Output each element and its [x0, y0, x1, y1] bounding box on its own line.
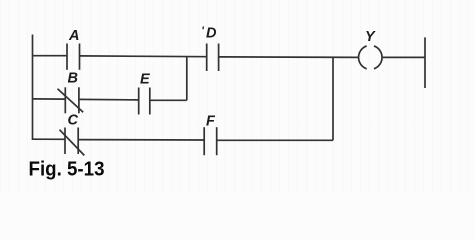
svg-text:D: D — [206, 26, 217, 42]
contact C (NC) — [60, 128, 85, 156]
svg-text:A: A — [68, 28, 79, 44]
svg-text:Y: Y — [365, 29, 376, 45]
wire branch junction down to E rung — [186, 57, 188, 101]
wire B to E — [79, 98, 139, 101]
right power rail — [424, 37, 426, 88]
svg-text:': ' — [201, 25, 204, 37]
wire A to D — [80, 55, 207, 58]
wire branch junction down to F rung — [332, 57, 334, 140]
contact E (NO) — [139, 88, 150, 115]
svg-text:C: C — [68, 113, 79, 129]
contact D (NO) — [207, 44, 219, 72]
contact A (NO) — [67, 44, 80, 70]
wire rail to B — [33, 98, 66, 100]
wire E to junction — [150, 99, 187, 101]
contact F (NO) — [204, 127, 217, 155]
svg-text:E: E — [140, 72, 151, 88]
svg-text:Fig. 5-13: Fig. 5-13 — [29, 158, 105, 181]
wire rail to A — [33, 55, 68, 57]
svg-text:F: F — [206, 113, 216, 129]
wire C to F — [78, 139, 204, 141]
svg-text:B: B — [68, 71, 78, 87]
left power rail — [32, 35, 34, 141]
wire coil to right rail — [382, 56, 425, 58]
contact B (NC) — [58, 87, 84, 113]
coil Y — [359, 46, 382, 69]
wire F to junction — [217, 139, 333, 141]
wire rail to C — [33, 138, 66, 140]
wire D to coil — [219, 56, 359, 59]
